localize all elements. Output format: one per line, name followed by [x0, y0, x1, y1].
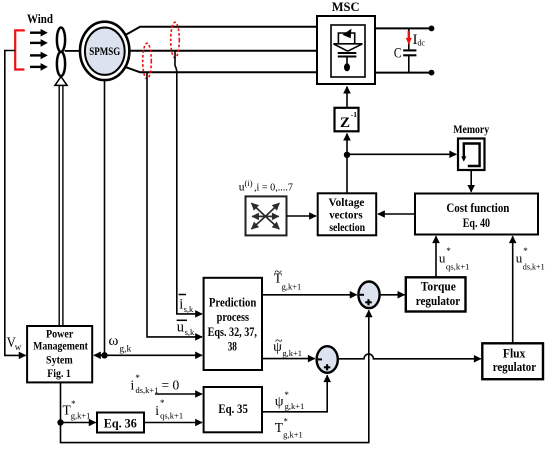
svg-text:u: u: [439, 250, 446, 265]
svg-text:qs,k+1: qs,k+1: [160, 410, 183, 420]
label Tg,k+1* (bottom): [275, 417, 303, 440]
block Eq. 35: [204, 387, 262, 432]
wire selection to Z-1: [346, 134, 348, 155]
wire junction to Eq. 36: [61, 422, 96, 424]
svg-text:Voltage: Voltage: [329, 197, 365, 209]
wire is,k measurement to Prediction: [175, 51, 202, 314]
label us,k: [177, 320, 195, 338]
label psi g,k+1*: [275, 390, 304, 411]
node speed junction: [101, 352, 107, 358]
svg-text:Torque: Torque: [421, 280, 456, 294]
svg-text:C: C: [394, 45, 402, 61]
svg-text:*: *: [283, 417, 288, 427]
turbine blade top: [57, 28, 65, 52]
summer flux: [317, 346, 338, 373]
wire us,k measurement to Prediction: [147, 72, 202, 337]
power management block: [27, 326, 92, 382]
svg-text:dc: dc: [417, 39, 425, 48]
wire Flux regulator to Cost function: [512, 236, 514, 343]
svg-text:selection: selection: [329, 222, 365, 234]
label iqs,k+1*: [155, 398, 183, 420]
svg-text:,i = 0,....7: ,i = 0,....7: [254, 182, 293, 194]
svg-text:Sytem: Sytem: [46, 354, 73, 366]
svg-text:i: i: [155, 403, 159, 418]
wire predicted flux to summer: [262, 358, 315, 360]
svg-text:38: 38: [228, 340, 237, 354]
wire Cost function to Voltage vectors selection: [378, 213, 415, 215]
svg-text:Power: Power: [46, 328, 73, 340]
svg-text:s,k: s,k: [185, 327, 195, 337]
wire Eq36 to Eq35 iqs*: [144, 422, 202, 424]
converter MSC box: [317, 0, 375, 84]
svg-text:Eq. 36: Eq. 36: [104, 416, 137, 430]
wire predicted torque to summer: [262, 294, 357, 296]
svg-text:Wind: Wind: [27, 12, 53, 26]
wire wg,k to Power Management: [94, 354, 105, 356]
wire u(i) to Voltage vectors selection: [286, 215, 316, 217]
svg-text:i: i: [131, 378, 135, 393]
wind arrow 3: [30, 52, 48, 60]
wire Tg* feedback to torque summer: [61, 310, 369, 442]
svg-text:vectors: vectors: [329, 209, 363, 221]
label ids,k+1*=0: [131, 373, 180, 395]
wire gate signal Z-1 to MSC: [346, 87, 348, 108]
label Vw: [7, 335, 22, 352]
svg-text:ds,k+1: ds,k+1: [136, 385, 159, 395]
node DC- terminal: [429, 70, 435, 76]
wire phase B (middle): [129, 50, 317, 52]
wire wg,k to Prediction: [105, 354, 203, 356]
wire flux summer to Flux regulator (with hop): [338, 354, 480, 359]
current Idc red arrow: [406, 31, 426, 48]
svg-text:Eqs. 32, 37,: Eqs. 32, 37,: [208, 325, 257, 339]
svg-text:*: *: [523, 246, 528, 256]
wire phase A (top): [125, 27, 317, 35]
svg-text:w: w: [15, 342, 22, 352]
svg-text:~: ~: [274, 265, 282, 280]
wire ids*=0 to Eq35: [155, 393, 202, 395]
label uds,k+1*: [516, 246, 545, 271]
svg-text:Eq. 40: Eq. 40: [463, 216, 490, 230]
svg-text:u: u: [516, 250, 523, 265]
wind arrow 2: [30, 39, 48, 47]
wire phase C (bottom): [125, 67, 317, 72]
node junction selection output: [344, 152, 350, 158]
svg-text:Fig. 1: Fig. 1: [47, 368, 71, 380]
svg-text:MSC: MSC: [332, 0, 360, 14]
svg-text:g,k+1: g,k+1: [71, 411, 91, 421]
svg-text:Z: Z: [340, 115, 350, 131]
svg-text:~: ~: [275, 334, 283, 349]
capacitor C: [394, 28, 417, 72]
svg-text:*: *: [135, 373, 140, 383]
svg-text:Cost function: Cost function: [446, 201, 509, 215]
wire junction to Voltage vectors selection: [346, 155, 348, 194]
svg-text:regulator: regulator: [493, 360, 537, 374]
current sensor ellipse 1 (red dashed): [171, 22, 180, 58]
svg-text:SPMSG: SPMSG: [89, 46, 120, 58]
svg-text:*: *: [284, 390, 289, 400]
svg-text:Flux: Flux: [503, 346, 526, 360]
svg-text:Eq. 35: Eq. 35: [218, 402, 248, 416]
svg-text:Memory: Memory: [453, 124, 489, 136]
wire Eq35 psi* to flux summer: [262, 375, 327, 412]
voltage vector set block u(i): [239, 178, 294, 236]
label wg,k: [109, 333, 132, 355]
wind arrow 1: [30, 29, 48, 37]
wire speed wg,k from generator: [104, 80, 106, 355]
svg-text:Prediction: Prediction: [209, 295, 256, 309]
node DC+ terminal: [429, 26, 435, 32]
svg-text:*: *: [160, 398, 165, 408]
turbine blade bottom: [57, 52, 65, 76]
svg-text:regulator: regulator: [416, 294, 461, 308]
svg-text:g,k+1: g,k+1: [283, 430, 303, 440]
node Tg* junction: [57, 419, 63, 425]
wire junction to Memory: [347, 153, 456, 155]
label uqs,k+1*: [439, 246, 470, 271]
svg-text:g,k: g,k: [119, 345, 131, 355]
svg-text:u: u: [177, 320, 184, 336]
delay block Z-1: [335, 108, 359, 132]
svg-text:*: *: [446, 246, 451, 256]
svg-text:= 0: = 0: [162, 378, 180, 393]
speed reference double line Power Management to turbine: [55, 77, 67, 326]
wind arrow 4: [30, 63, 48, 71]
svg-text:s,k: s,k: [184, 304, 194, 314]
memory block: [453, 124, 489, 170]
red bracket (wind): [15, 30, 25, 69]
svg-text:(i): (i): [245, 178, 253, 188]
svg-text:process: process: [217, 310, 250, 324]
torque regulator block: [406, 277, 466, 311]
wire Torque regulator to Cost function: [435, 236, 437, 277]
wire DC bus top: [375, 27, 432, 29]
svg-text:g,k+1: g,k+1: [282, 282, 302, 292]
svg-text:ds,k+1: ds,k+1: [523, 261, 545, 271]
current sensor ellipse 2 (red dashed): [143, 43, 152, 79]
svg-text:qs,k+1: qs,k+1: [446, 261, 470, 271]
svg-text:g,k+1: g,k+1: [285, 401, 305, 411]
block Eq. 36: [97, 413, 144, 433]
shaft turbine to generator: [65, 50, 81, 52]
prediction process block: [204, 278, 262, 370]
svg-text:ψ: ψ: [275, 395, 284, 410]
wire torque summer to Torque regulator: [380, 294, 404, 296]
wire Memory to Cost function: [470, 170, 472, 192]
voltage vectors selection block: [318, 193, 377, 235]
svg-text:ω: ω: [109, 333, 119, 349]
label is,k: [179, 295, 194, 314]
cost function block: [415, 194, 538, 235]
wire Tg,k+1* from Power Management to Eq36 and torque summer: [60, 382, 62, 422]
IGBT symbol inside MSC: [333, 29, 362, 72]
svg-text:Management: Management: [33, 341, 88, 353]
label T~ g,k+1: [274, 265, 302, 292]
flux regulator block: [482, 343, 543, 379]
svg-text:*: *: [71, 399, 76, 409]
svg-text:g,k+1: g,k+1: [282, 348, 302, 358]
wire Vw: bracket to Power Management: [5, 51, 26, 356]
label Tg,k+1* (left): [63, 399, 91, 421]
generator SPMSG: [80, 22, 129, 80]
wire DC bus bottom: [375, 72, 432, 74]
label psi~ g,k+1: [273, 334, 302, 358]
summer torque: [358, 282, 379, 309]
svg-text:-1: -1: [351, 110, 357, 119]
